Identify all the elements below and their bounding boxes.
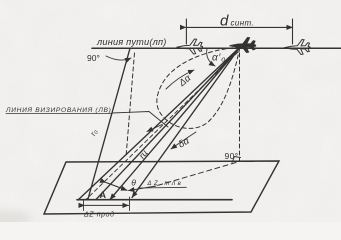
baseline through A [77,199,232,201]
delta-alpha big beamwidth arc [166,70,194,89]
svg-text:линия пути(лп): линия пути(лп) [96,37,167,47]
svg-text:d: d [220,13,229,30]
svg-text:α′₀: α′₀ [212,53,226,64]
underline of ЛВ caption [6,113,112,115]
svg-text:ΔZ прод: ΔZ прод [83,210,115,218]
ground plane parallelogram [44,161,279,214]
right angle marker at nadir foot [232,157,241,163]
svg-text:θ: θ [131,178,136,188]
svg-text:90°: 90° [225,151,239,161]
svg-text:90°: 90° [87,53,100,63]
svg-text:синт.: синт. [231,19,255,28]
arrow pointing to beam near r label [147,125,162,132]
theta pointer arrow [129,186,157,191]
dashed vertical below ЛП-ЛВ vertex [126,53,135,157]
d sint left tick [185,19,187,44]
dashed line from nadir foot to theta vertex [154,163,236,187]
vertical dashed from center aircraft to ground [239,53,241,161]
d sint right tick [292,19,294,44]
90 degree arc arrow at ЛП-ЛВ vertex [106,56,131,60]
line of sight ЛВ [88,48,130,199]
aircraft center (filled) [230,38,256,53]
alpha'0 angle arc [207,49,215,67]
fan line 1 from aircraft to A [78,47,240,200]
aircraft right (outline) [284,40,310,55]
fan line 4 with arrow [132,47,240,198]
aircraft left (outline) [177,39,203,54]
dashed antenna lobe (petal) [157,47,240,128]
underline of dZ tlv label [138,186,187,189]
d sint dimension line [186,26,293,28]
dashed beam centerline [86,52,238,200]
dZ prod dimension right tick [129,197,131,211]
svg-text:ΔZ тлв: ΔZ тлв [147,181,184,187]
dZ prod dimension arrows [85,204,129,206]
fan line 2 [96,47,240,200]
fan line 3 with arrow [110,47,240,200]
flight path line ЛП [92,47,341,49]
dZ prod dimension left tick [83,200,85,211]
beam width double arrow bar [106,183,127,191]
small delta-alpha arc across fan [171,132,196,149]
label leader from ЛВ caption to beam [112,112,168,128]
svg-text:A: A [100,190,107,200]
svg-text:ЛИНИЯ ВИЗИРОВАНИЯ (ЛВ): ЛИНИЯ ВИЗИРОВАНИЯ (ЛВ) [5,107,112,114]
